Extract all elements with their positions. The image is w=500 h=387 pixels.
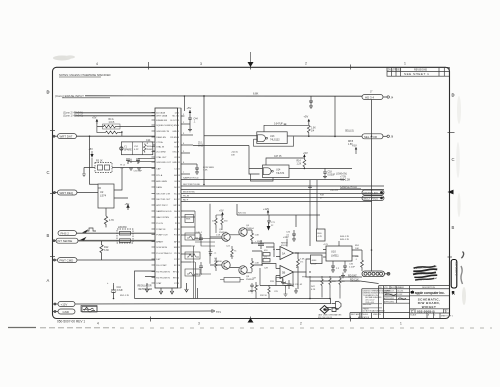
svg-text:1%: 1% — [264, 257, 267, 259]
next assy cells — [351, 313, 381, 319]
resistor R2 horizontal zigzag — [104, 131, 120, 134]
waveform box W2 — [185, 252, 200, 259]
bus wire SECTOR 2 — [181, 189, 384, 191]
svg-text:2: 2 — [178, 116, 179, 118]
power arrow down analog — [267, 222, 271, 231]
svg-text:NEXT ASSY: NEXT ASSY — [351, 313, 361, 316]
svg-text:8: 8 — [178, 147, 179, 149]
ground arrow 1 — [145, 283, 149, 292]
label C30 — [286, 232, 291, 237]
transistor Q3 — [222, 261, 230, 269]
tolerance block lines — [363, 304, 383, 308]
svg-text:3: 3 — [200, 62, 202, 66]
capacitor C6 top right of module — [188, 114, 192, 132]
svg-text:DATA: DATA — [156, 186, 162, 189]
svg-text:ERASE EN: ERASE EN — [364, 191, 378, 195]
svg-text:RD PULSE IN: RD PULSE IN — [156, 271, 170, 273]
+5V right area — [352, 144, 357, 155]
wire C40 to rail — [113, 283, 115, 299]
svg-text:STAT: STAT — [156, 282, 162, 285]
pin stub +12V — [53, 303, 59, 305]
svg-text:LM311: LM311 — [331, 254, 339, 258]
feedback wire above gateA — [264, 125, 309, 132]
wire gateB top feedback — [266, 158, 304, 165]
transistor Q2 — [239, 228, 247, 236]
svg-text:INT SENSE: INT SENSE — [58, 239, 73, 243]
svg-text:10K: 10K — [355, 248, 359, 250]
label R50 — [355, 245, 360, 250]
tolerance block text — [363, 290, 392, 312]
capacitor C18 below output — [323, 168, 327, 179]
svg-text:2: 2 — [305, 62, 307, 66]
svg-text:SEE SHEET 1: SEE SHEET 1 — [404, 72, 429, 76]
svg-text:D: D — [47, 90, 50, 95]
module bottom grounds — [159, 288, 174, 294]
wire U6 to 4044 — [306, 259, 311, 272]
wire R60 tops — [216, 215, 222, 233]
svg-text:1: 1 — [178, 272, 179, 274]
label R14 — [297, 161, 302, 166]
svg-text:A: A — [47, 278, 50, 283]
label C18 — [328, 172, 336, 177]
label R10 — [311, 128, 316, 133]
diff pair mesh wires — [252, 243, 274, 265]
svg-text:18: 18 — [178, 205, 180, 207]
svg-text:3.3UF: 3.3UF — [117, 290, 124, 292]
svg-text:ECO NUMBER: ECO NUMBER — [391, 287, 404, 289]
approval cells lines — [384, 289, 410, 303]
module U1 pin numbers — [178, 113, 180, 286]
ground U6 — [281, 279, 285, 285]
svg-text:+12V: +12V — [61, 303, 68, 307]
right edge part tag — [451, 260, 458, 289]
svg-text:21: 21 — [178, 223, 180, 225]
ground crystal caps — [129, 168, 141, 170]
svg-text:HD 3 4: HD 3 4 — [365, 96, 374, 100]
bias box B1 — [220, 278, 244, 283]
wire RP1 left — [84, 168, 95, 175]
svg-text:PLL/B: PLL/B — [183, 196, 189, 198]
cap C30 — [292, 230, 296, 241]
svg-text:15: 15 — [178, 187, 180, 189]
test point TP1 — [210, 309, 221, 314]
svg-text:DRAWN J.E.: DRAWN J.E. — [384, 290, 395, 293]
ground symbols bottom analog — [294, 273, 345, 294]
svg-text:4: 4 — [178, 125, 179, 127]
resistor network box — [103, 124, 121, 129]
svg-text:+12V: +12V — [263, 207, 269, 211]
resistor R24 small box — [263, 253, 270, 262]
wire head N — [75, 112, 155, 114]
svg-text:R45 4.7K: R45 4.7K — [340, 239, 350, 241]
signal arrow phs2 — [82, 229, 88, 233]
svg-text:4.7K: 4.7K — [109, 219, 114, 222]
cap C22 — [258, 240, 264, 249]
zone tick marks top edge — [149, 62, 351, 70]
resistor R30 below U5 — [297, 253, 300, 289]
svg-text:10-5-81: 10-5-81 — [397, 291, 403, 293]
label 74LS at SEL — [345, 131, 354, 146]
cap C33 below U7 — [343, 266, 347, 272]
cap C51 — [199, 262, 203, 271]
pin stub HD — [383, 96, 394, 100]
wire erase net — [85, 95, 362, 97]
svg-text:9: 9 — [178, 152, 179, 154]
label C6 — [194, 119, 199, 124]
svg-text:ZN: ZN — [388, 69, 391, 72]
resistor R14 gateB — [303, 158, 306, 168]
svg-text:6.2K: 6.2K — [311, 289, 316, 291]
connector HD 3-4 — [362, 95, 383, 100]
svg-text:10K: 10K — [332, 281, 336, 283]
wire U2 clock input — [77, 192, 98, 194]
wire transistor mesh left — [195, 239, 222, 243]
svg-text:11: 11 — [178, 162, 180, 164]
bus labels — [183, 177, 200, 202]
svg-text:+5V: +5V — [187, 106, 192, 110]
svg-text:REVISIONS: REVISIONS — [414, 68, 427, 71]
svg-text:SQUELCH EN: SQUELCH EN — [156, 125, 170, 127]
wire crystal to module — [153, 145, 155, 151]
pin stub SEL — [383, 135, 394, 139]
resistor R1 horizontal zigzag — [102, 125, 118, 128]
svg-text:SAMPLE HOLD: SAMPLE HOLD — [156, 210, 172, 213]
svg-text:2: 2 — [300, 321, 302, 325]
tiny note under diamond — [318, 314, 342, 319]
wire gate output to HD connector drop — [334, 96, 336, 136]
scan noise right margin — [456, 96, 466, 305]
pin stub WRT REQ — [53, 192, 58, 194]
svg-text:100K: 100K — [147, 146, 152, 148]
svg-text:27: 27 — [178, 259, 180, 261]
svg-text:+5V: +5V — [352, 144, 357, 148]
svg-text:GND: GND — [172, 162, 177, 164]
component box right of module — [185, 215, 194, 223]
junction dots analog — [113, 189, 373, 299]
svg-text:4: 4 — [434, 314, 435, 316]
svg-text:GROUND TB: GROUND TB — [156, 131, 169, 133]
junction SEL — [371, 136, 373, 138]
ground C54 — [250, 289, 254, 293]
junction dots buses — [203, 184, 205, 186]
op-amp U6 — [276, 266, 294, 279]
scale row text — [410, 313, 452, 317]
+5V arrow near head — [96, 119, 99, 124]
hybrid module U1 body — [155, 108, 178, 288]
svg-text:2N3906: 2N3906 — [219, 232, 227, 234]
svg-text:LOOP: LOOP — [311, 264, 317, 266]
svg-text:A1 DATA: A1 DATA — [156, 111, 165, 114]
size letter — [410, 309, 448, 311]
bus wire SAMPLE HOLD — [181, 179, 345, 181]
svg-text:6: 6 — [178, 137, 179, 139]
label R60 R61 — [212, 221, 228, 223]
svg-text:+5V: +5V — [89, 148, 94, 151]
label RD DAT — [348, 274, 358, 277]
zone ticks right edge — [448, 133, 455, 258]
bus wire SECTOR 1 — [181, 185, 384, 187]
bus wire SECTOR 4 — [181, 197, 384, 199]
wire gateB low chain — [310, 180, 317, 215]
wire gateA output — [287, 135, 362, 137]
svg-text:WRT REQ: WRT REQ — [60, 191, 74, 195]
svg-text:SECTOR PULSE: SECTOR PULSE — [183, 184, 200, 186]
svg-text:+5V: +5V — [219, 210, 224, 213]
label LOW WRB — [203, 167, 214, 172]
svg-text:C: C — [47, 170, 50, 175]
apple computer banner — [410, 290, 444, 295]
capacitor C40 polarized — [111, 285, 116, 299]
label RD CLK — [350, 279, 360, 282]
svg-text:TP1: TP1 — [216, 310, 221, 314]
svg-text:R52 4.7K: R52 4.7K — [120, 295, 130, 297]
resistor R61 — [221, 215, 223, 228]
svg-text:WIDGET: WIDGET — [422, 305, 436, 309]
svg-text:INDX/SYNC: INDX/SYNC — [183, 192, 195, 194]
resistor R5 below U2 — [104, 216, 107, 227]
node HEAD N input — [63, 111, 83, 114]
svg-text:24: 24 — [178, 242, 180, 244]
resistor R60 — [215, 215, 217, 228]
svg-text:apple computer inc.: apple computer inc. — [415, 291, 445, 295]
junction gateB out — [304, 168, 306, 170]
connector PHS 2 — [58, 231, 77, 236]
svg-text:CAP: CAP — [156, 167, 161, 170]
wire analog left verticals to rail — [194, 246, 196, 299]
+5V gateA — [304, 115, 311, 126]
wire RP1 to module — [112, 167, 155, 169]
svg-text:052-5008-B: 052-5008-B — [455, 262, 459, 276]
+5V module top — [187, 106, 192, 114]
svg-text:GALV INTEN: GALV INTEN — [156, 216, 169, 219]
svg-text:RG COMP: RG COMP — [156, 265, 167, 267]
wire U5 out — [294, 252, 327, 254]
svg-text:1.2K: 1.2K — [297, 163, 302, 165]
svg-text:3.3K: 3.3K — [104, 249, 109, 252]
label mid left gateB — [231, 152, 238, 157]
bias box B2 — [276, 278, 283, 282]
connector SECT row2 — [362, 196, 384, 201]
zone letters left edge — [47, 90, 50, 284]
resistor R10 — [307, 125, 310, 136]
svg-text:052-5008-B: 052-5008-B — [417, 309, 435, 313]
wire INT SENSE grey highlight — [78, 240, 155, 242]
revision table — [387, 67, 449, 76]
wire R1 R2 left verticals — [97, 121, 104, 133]
svg-text:D: D — [452, 93, 455, 98]
pin stub GND — [53, 311, 59, 313]
svg-text:GND: GND — [172, 131, 177, 133]
zone numbers bottom — [97, 321, 402, 325]
svg-text:C: C — [452, 157, 455, 162]
connector SEL 7 OR — [362, 134, 383, 139]
pin stub left of WRT DAT — [53, 135, 58, 137]
svg-text:SECTOR OUT: SECTOR OUT — [156, 199, 171, 201]
label R30 — [300, 259, 305, 264]
op-amp U5 — [276, 247, 294, 260]
svg-text:14: 14 — [178, 181, 180, 183]
svg-text:C18: C18 — [328, 172, 333, 174]
svg-text:WRT PROT: WRT PROT — [156, 205, 168, 207]
wire vertical gate feed — [203, 96, 205, 184]
module U1 internal right labels — [170, 112, 177, 285]
transistor Q4 — [239, 266, 247, 274]
svg-text:C44: C44 — [194, 119, 199, 121]
svg-text:SECTOR CTR: SECTOR CTR — [156, 193, 170, 195]
svg-text:RD P: RD P — [183, 200, 189, 202]
MC4044 box — [311, 255, 323, 264]
svg-text:NOTES: UNLESS OTHERWISE SPECIF: NOTES: UNLESS OTHERWISE SPECIFIED — [59, 73, 111, 77]
svg-text:REGULATOR: REGULATOR — [138, 285, 152, 288]
node ERASE input label — [55, 94, 84, 98]
svg-text:1.0K: 1.0K — [255, 263, 260, 265]
waveform glyph phs2 — [86, 228, 96, 231]
svg-text:C47 ±5: C47 ±5 — [274, 156, 282, 158]
svg-text:XTAL IN: XTAL IN — [156, 145, 164, 148]
label R2.2 — [120, 165, 125, 170]
title text — [418, 297, 441, 309]
resistor R62 — [231, 246, 233, 259]
svg-text:C44: C44 — [117, 287, 122, 289]
svg-text:4.2P: 4.2P — [134, 149, 139, 151]
svg-text:PHS 2: PHS 2 — [61, 232, 70, 236]
wire module bottom loop — [135, 271, 198, 299]
approval scrawls — [385, 294, 406, 299]
released stamp smudge — [412, 265, 438, 282]
svg-text:2: 2 — [178, 278, 179, 280]
labels transistors — [214, 225, 254, 281]
svg-text:WRT DATA: WRT DATA — [156, 114, 167, 117]
svg-text:USED ON: USED ON — [373, 314, 381, 316]
svg-text:DESCRIPTION: DESCRIPTION — [422, 287, 436, 289]
svg-text:+10UF C31 .02: +10UF C31 .02 — [288, 284, 303, 286]
svg-text:13: 13 — [178, 175, 180, 177]
cap C50 — [199, 234, 203, 243]
cap C53 under gateB — [308, 186, 312, 187]
comparator U7 LM311 — [323, 241, 358, 266]
svg-text:4: 4 — [97, 321, 99, 325]
waveform box bottom left — [81, 306, 97, 312]
svg-text:B: B — [445, 310, 447, 314]
svg-text:R44 4.7K: R44 4.7K — [340, 236, 350, 238]
wire +12V rail — [75, 303, 332, 306]
svg-text:10: 10 — [178, 157, 180, 159]
wire U6 out — [294, 271, 307, 273]
svg-text:READ EN: READ EN — [156, 136, 166, 139]
svg-text:+5V: +5V — [125, 202, 130, 206]
svg-text:B: B — [452, 225, 455, 230]
pin stub detector — [385, 272, 390, 275]
zone numbers top — [96, 62, 406, 67]
svg-text:APPROVED: APPROVED — [384, 297, 395, 300]
fold mark arrow bottom — [248, 318, 254, 323]
wire readout RD CLK — [310, 281, 379, 284]
svg-text:19: 19 — [178, 211, 180, 213]
module U1 right pin stubs — [181, 116, 197, 262]
capacitor C4 values — [146, 139, 151, 145]
svg-text:26: 26 — [178, 253, 180, 255]
svg-text:LOW(+5V): LOW(+5V) — [336, 174, 347, 176]
cap C56 polarized — [209, 249, 213, 256]
svg-text:DET: DET — [156, 259, 161, 261]
capacitor C54 — [250, 283, 254, 289]
svg-text:SEL(LS): SEL(LS) — [345, 131, 354, 133]
pin stub PWT CMD — [53, 259, 58, 261]
svg-text:GROUND OUT: GROUND OUT — [156, 162, 171, 164]
waveform box on GND rail — [82, 307, 97, 313]
ground RP1 left — [82, 174, 86, 177]
label 2MHz line — [198, 143, 204, 148]
wire gateB inputs — [193, 146, 263, 175]
bottom resistor row — [255, 276, 323, 299]
banner underline — [410, 295, 450, 297]
ground arrow 2 — [185, 283, 189, 292]
connector WRT DAT — [58, 134, 77, 139]
wire gateB under loop — [249, 174, 273, 181]
label mid right — [320, 190, 339, 199]
wire U7 right pins to vertical — [371, 249, 373, 251]
svg-text:PLL IN: PLL IN — [156, 223, 163, 225]
small marker right edge A zone — [452, 291, 455, 294]
waveform box W1 — [185, 233, 200, 240]
svg-text:SOW MON: SOW MON — [156, 247, 167, 249]
svg-text:25: 25 — [178, 247, 180, 249]
rail to plug vertical — [330, 299, 332, 304]
svg-text:12: 12 — [178, 169, 180, 171]
svg-text:2N3904: 2N3904 — [246, 228, 254, 230]
svg-text:PHS: PHS — [302, 277, 307, 279]
svg-text:220/330: 220/330 — [118, 226, 127, 229]
label REGULATOR — [138, 285, 153, 291]
rail drops — [237, 204, 317, 246]
svg-text:SM: SM — [174, 247, 177, 249]
capacitor C55 polarized — [284, 282, 288, 289]
svg-text:RD EN: RD EN — [170, 137, 177, 139]
small symbol next to diamond — [330, 308, 339, 312]
wire crystal caps — [131, 159, 139, 163]
svg-text:+12V: +12V — [283, 236, 289, 239]
connector plug P2 — [332, 302, 341, 309]
value labels scatter analog — [216, 213, 360, 298]
connector INT SENSE — [56, 238, 78, 243]
svg-text:2.2UF: 2.2UF — [349, 266, 356, 268]
svg-text:1=0.5: 1=0.5 — [109, 122, 116, 124]
note text — [59, 73, 111, 77]
label R62 R63 — [209, 251, 237, 258]
junction dot erase/gate input — [203, 95, 205, 97]
svg-text:676-0101: 676-0101 — [361, 314, 368, 316]
svg-text:25.1: 25.1 — [198, 143, 203, 145]
approval cells text — [384, 290, 403, 304]
module U1 internal labels — [156, 111, 172, 284]
svg-text:25.0 MHZ: 25.0 MHZ — [156, 151, 166, 153]
wire R64 bottom — [322, 288, 340, 299]
svg-text:R22 2.2M: R22 2.2M — [340, 179, 350, 181]
module U1 pin rail — [180, 108, 182, 288]
svg-text:R ±2: R ±2 — [120, 165, 125, 167]
svg-text:4044: 4044 — [312, 260, 318, 262]
wire gateA under loop — [254, 137, 294, 147]
zone letters right edge — [452, 93, 455, 297]
title block zone row labels — [379, 287, 436, 289]
wire erase drop to module — [184, 95, 186, 111]
connector ERASE EN — [362, 190, 384, 195]
bus wire SECTOR 5 — [181, 201, 372, 203]
svg-text:0.047UF: 0.047UF — [274, 123, 283, 125]
svg-text:RD PULSE IN: RD PULSE IN — [156, 277, 170, 279]
svg-text:APPLICATION: APPLICATION — [358, 316, 370, 319]
svg-text:+7.5V: +7.5V — [340, 177, 347, 179]
